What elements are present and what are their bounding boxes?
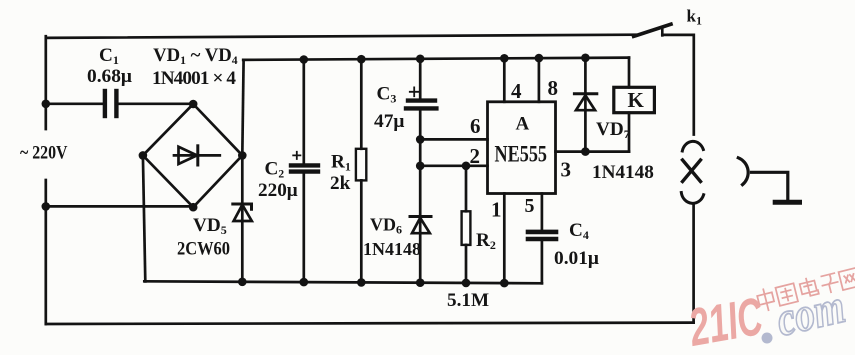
capacitor C4: [528, 232, 556, 283]
svg-text:5.1M: 5.1M: [447, 290, 489, 311]
svg-text:A: A: [516, 114, 530, 135]
node pin8 vcc: [535, 54, 544, 63]
node pin2 junction: [416, 162, 425, 171]
resistor R2: [462, 166, 471, 283]
resistor R1: [356, 59, 366, 282]
watermark hanzi 中国电子网: [756, 265, 855, 312]
capacitor C3: [406, 59, 436, 140]
svg-text:K: K: [628, 88, 645, 112]
node pin1 ground: [500, 279, 509, 288]
svg-text:4: 4: [511, 79, 522, 103]
svg-text:C4: C4: [569, 220, 589, 242]
svg-text:2k: 2k: [330, 173, 351, 194]
wire bridge right vertex riser: [242, 60, 243, 155]
svg-text:1N4148: 1N4148: [592, 162, 654, 183]
svg-text:5: 5: [525, 195, 535, 217]
wire left side down: [44, 206, 47, 324]
svg-text:C1: C1: [99, 45, 119, 67]
op-amp U1 NE555 body: [488, 102, 556, 194]
capacitor C1: [105, 91, 117, 116]
wire left AC stub top: [44, 36, 47, 129]
wire bridge left vertex to ground rail: [143, 155, 145, 281]
diode VD6: [410, 166, 431, 283]
svg-text:6: 6: [470, 114, 481, 138]
wire top rail: [46, 35, 636, 38]
svg-text:8: 8: [548, 76, 559, 100]
node C1 tap: [42, 100, 51, 109]
wire vcc rail: [243, 58, 629, 60]
svg-text:R2: R2: [476, 230, 496, 252]
svg-text:C3: C3: [377, 84, 397, 106]
node R1 ground: [357, 278, 366, 287]
wire pin 6: [420, 138, 487, 141]
wire pin 1: [503, 194, 506, 284]
node bridge top vertex: [189, 100, 198, 109]
svg-text:VD5: VD5: [193, 215, 227, 237]
capacitor C2: [291, 60, 318, 283]
node C3 vcc: [416, 55, 425, 64]
svg-text:47μ: 47μ: [374, 111, 404, 132]
svg-text:k1: k1: [687, 7, 702, 28]
wire AC to bridge bottom: [46, 205, 193, 208]
node bridge bottom vertex: [189, 203, 198, 212]
node pin4 vcc: [500, 54, 509, 63]
svg-text:2: 2: [470, 144, 481, 168]
node R1 vcc: [357, 55, 366, 64]
svg-text:VD1 ~ VD4: VD1 ~ VD4: [153, 45, 238, 67]
node AC bottom tap: [42, 202, 51, 211]
watermark dot: [762, 333, 773, 344]
node pin6 junction: [416, 135, 425, 144]
svg-text:220μ: 220μ: [258, 180, 298, 201]
svg-text:NE555: NE555: [495, 142, 548, 167]
node C2 ground: [300, 278, 309, 287]
wire C1 right lead: [119, 102, 193, 105]
node bridge right vertex: [238, 151, 247, 160]
node VD5 ground: [238, 278, 247, 287]
wire left AC stub bottom: [44, 180, 47, 206]
svg-text:~ 220V: ~ 220V: [20, 143, 68, 164]
node R2 ground: [462, 279, 471, 288]
wire bottom return: [46, 323, 694, 324]
node C2 vcc: [300, 55, 309, 64]
switch k1: [634, 24, 671, 36]
svg-text:21IC: 21IC: [684, 287, 767, 355]
watermark 21IC: [684, 287, 767, 355]
svg-text:0.68μ: 0.68μ: [87, 66, 132, 87]
svg-text:com: com: [772, 280, 850, 347]
wire pin 2: [420, 164, 487, 167]
wire pin 5: [541, 194, 544, 230]
wire pin 3: [556, 150, 630, 153]
svg-text:1: 1: [491, 198, 502, 222]
svg-text:0.01μ: 0.01μ: [554, 248, 599, 269]
svg-text:1N4148: 1N4148: [363, 239, 421, 259]
node VD6 ground: [416, 278, 425, 287]
svg-text:3: 3: [561, 158, 572, 182]
wire C1 left lead: [46, 102, 103, 105]
watermark com: [772, 280, 850, 347]
wire C3 to pin2 junction: [419, 139, 422, 165]
zener diode VD5: [233, 155, 252, 281]
wire pin 4: [503, 58, 506, 102]
node VD7 vcc: [581, 54, 590, 63]
svg-text:VD7: VD7: [596, 119, 630, 141]
diode VD7: [574, 58, 596, 152]
node VD7 pin3 junction: [581, 147, 590, 156]
bridge rectifier VD1-VD4: [143, 104, 242, 207]
wire pin 8: [538, 58, 541, 102]
wire ground rail: [144, 281, 542, 283]
svg-text:VD6: VD6: [370, 215, 402, 237]
wire lamp bottom lead: [692, 205, 695, 323]
svg-text:1N4001 × 4: 1N4001 × 4: [152, 68, 236, 89]
svg-text:2CW60: 2CW60: [177, 239, 230, 260]
node bridge left vertex: [139, 151, 148, 160]
wire k1 to lamp: [662, 35, 694, 135]
lamp EL: [681, 141, 703, 203]
node R2 top junction: [462, 162, 471, 171]
relay K coil: [614, 58, 655, 152]
svg-text:R1: R1: [331, 152, 351, 174]
plug socket symbol: [738, 158, 799, 202]
svg-text:C2: C2: [265, 159, 285, 181]
